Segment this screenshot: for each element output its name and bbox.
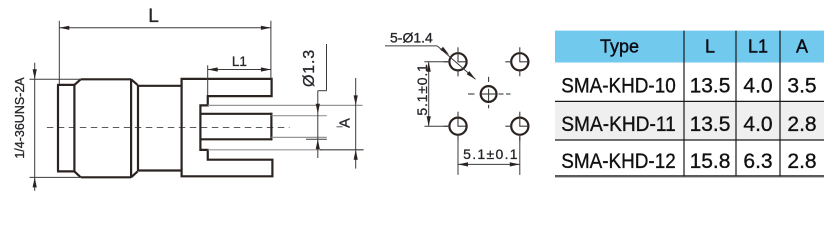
svg-text:15.8: 15.8 (690, 150, 731, 173)
dimension L1 (208, 65, 271, 95)
footprint: corner hole bottom-right (511, 118, 528, 135)
footprint: corner hole top-left (449, 53, 466, 70)
svg-text:3.5: 3.5 (787, 75, 816, 98)
hex nut middle face with chamfers (74, 79, 137, 177)
center mark: bottom-right hole (505, 112, 527, 141)
svg-text:L1: L1 (232, 54, 247, 69)
footprint: corner hole top-right (511, 53, 528, 70)
table row separator lines (555, 101, 824, 140)
hex nut face edge lines (74, 79, 138, 178)
svg-text:Type: Type (600, 37, 639, 57)
dimension A bottom extension line (320, 149, 364, 151)
svg-text:4.0: 4.0 (743, 113, 772, 136)
table bottom border (555, 175, 824, 177)
svg-text:1/4-36UNS-2A: 1/4-36UNS-2A (13, 77, 27, 159)
table column lines (684, 31, 780, 177)
svg-text:Ø1.3: Ø1.3 (301, 49, 318, 87)
table header text (600, 37, 808, 57)
svg-text:SMA-KHD-11: SMA-KHD-11 (561, 113, 676, 136)
svg-text:4.0: 4.0 (743, 75, 772, 98)
svg-text:5.1±0.1: 5.1±0.1 (414, 63, 430, 115)
svg-text:5.1±0.1: 5.1±0.1 (463, 146, 519, 162)
dielectric tube (200, 113, 271, 141)
centerline axis (47, 127, 290, 129)
svg-text:L: L (705, 37, 715, 57)
svg-text:6.3: 6.3 (743, 150, 772, 173)
cylinder section between nut and body (138, 86, 182, 171)
thread dimension 1/4-36UNS-2A (30, 63, 81, 191)
insulator bushing (diameter A) gray lines (208, 105, 363, 149)
svg-text:2.8: 2.8 (787, 150, 816, 173)
table row 1 (561, 75, 816, 98)
svg-text:A: A (796, 37, 808, 57)
svg-text:13.5: 13.5 (690, 113, 731, 136)
center mark: top-left hole (444, 47, 466, 76)
center pin gray lines (271, 116, 326, 138)
svg-text:2.8: 2.8 (787, 113, 816, 136)
footprint: corner hole bottom-left (449, 118, 466, 135)
table zebra row band (555, 101, 824, 140)
body block and mounting legs outline (182, 79, 273, 176)
dimension Ø1.3 with leader (306, 44, 327, 158)
svg-text:A: A (338, 118, 354, 128)
center mark: top-right hole (505, 47, 527, 76)
footprint: center hole (481, 86, 497, 102)
table header band (555, 31, 824, 63)
footprint vertical dimension 5.1±0.1 (424, 62, 449, 126)
svg-text:L: L (148, 6, 159, 27)
center hole crosshair (468, 77, 511, 109)
center mark: bottom-left hole (444, 112, 466, 141)
svg-text:13.5: 13.5 (690, 75, 731, 98)
dimension A (355, 78, 357, 169)
table row 2 (561, 113, 816, 136)
hex nut left face (57, 85, 74, 171)
table row 3 (561, 150, 816, 173)
centerline dash segment right (337, 126, 343, 128)
svg-text:SMA-KHD-10: SMA-KHD-10 (561, 75, 676, 98)
svg-text:SMA-KHD-12: SMA-KHD-12 (561, 150, 676, 173)
footprint horizontal dimension 5.1±0.1 (458, 136, 520, 175)
svg-text:L1: L1 (748, 37, 768, 57)
dimension L (59, 21, 271, 84)
svg-text:5-Ø1.4: 5-Ø1.4 (390, 30, 433, 46)
